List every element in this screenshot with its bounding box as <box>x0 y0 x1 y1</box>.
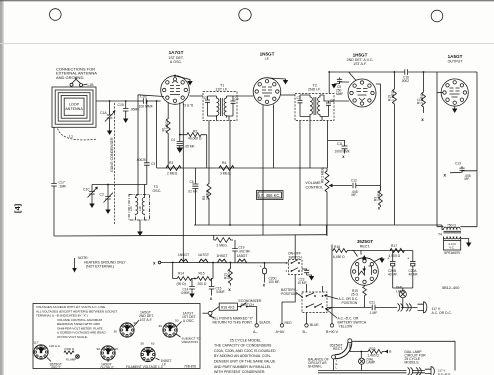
capacitor C11 1000MMF <box>328 140 345 146</box>
svg-text:RECT.: RECT. <box>360 245 371 249</box>
svg-text:RED: RED <box>285 321 293 325</box>
svg-text:50: 50 <box>175 319 179 323</box>
node shunt mid <box>194 278 196 280</box>
svg-text:OUTPUT: OUTPUT <box>100 366 114 370</box>
switch blade economizer <box>237 303 256 324</box>
wire V2 screen drop <box>273 105 275 169</box>
rectifier feed line with R16 <box>332 245 358 257</box>
wire left long drop from loop <box>53 127 55 183</box>
svg-text:*3 & *6: *3 & *6 <box>183 104 193 108</box>
svg-text:.04MF.: .04MF. <box>181 291 191 295</box>
svg-text:2 MEG.: 2 MEG. <box>217 244 228 248</box>
svg-text:117: 117 <box>34 341 39 345</box>
socket S4 1A7GT upper <box>163 323 177 337</box>
svg-text:120 A.C.: 120 A.C. <box>49 344 61 348</box>
inset cord slack <box>408 368 422 375</box>
svg-text:L2B: L2B <box>138 206 142 211</box>
resistor R15 200 ohm <box>195 277 213 281</box>
svg-text:x: x <box>210 296 213 301</box>
T1 secondary coil <box>224 96 226 118</box>
svg-text:900 Ω: 900 Ω <box>227 270 231 279</box>
wire V2 top ground lead <box>269 78 286 80</box>
terminal A plus 6V <box>281 302 283 324</box>
on-off switch dashed box <box>289 260 303 275</box>
svg-text:1ST I.F.: 1ST I.F. <box>216 88 229 92</box>
tube V3 1H5GT envelope <box>348 79 376 107</box>
svg-text:L: L <box>336 366 338 370</box>
svg-text:1A5GT: 1A5GT <box>448 54 463 59</box>
electrolytic C20A <box>412 251 414 262</box>
return arrow under C1A <box>107 131 112 136</box>
svg-text:C6: C6 <box>190 180 194 184</box>
battery switch dashed box <box>302 292 327 313</box>
wire V3 diode plate down <box>376 84 381 190</box>
svg-text:1A7GT: 1A7GT <box>198 253 210 257</box>
T3 coil B <box>142 197 144 216</box>
svg-text:R23: R23 <box>370 347 376 351</box>
wire V3 plate to rail <box>349 72 356 81</box>
wire main signal line <box>96 100 161 102</box>
svg-text:1000 MMF.: 1000 MMF. <box>335 150 351 154</box>
wire T2 screen feed x329.2 <box>328 72 330 94</box>
svg-text:1H5GT: 1H5GT <box>353 53 368 58</box>
wire V1 top ground lead <box>177 76 191 81</box>
T4 primary coil <box>444 227 461 229</box>
wire T2 primary bplus drop <box>299 121 301 226</box>
svg-text:R3: R3 <box>169 161 173 165</box>
svg-text:C20A, C20B, AND C20C IS DOUBLE: C20A, C20B, AND C20C IS DOUBLED <box>214 349 276 353</box>
svg-text:[4]: [4] <box>13 203 22 213</box>
wire switch to A plus <box>282 275 295 303</box>
socket S4 label <box>177 322 182 327</box>
svg-text:POSITION: POSITION <box>281 292 297 296</box>
resistor R11 vertical 2 MEG <box>422 72 426 113</box>
svg-text:L2A: L2A <box>129 206 133 211</box>
resistor R12 2 MEG near bus <box>214 235 233 242</box>
voltage chart text <box>36 305 118 339</box>
potentiometer R8 <box>325 168 329 236</box>
wire battery switch top feeds <box>307 284 333 313</box>
svg-text:CONTROL: CONTROL <box>306 185 324 189</box>
economizer terminal <box>208 311 212 315</box>
resistor R3 2 MEG in AVC bus <box>166 166 181 171</box>
svg-text:.00025: .00025 <box>136 158 146 162</box>
svg-text:1A5GT: 1A5GT <box>236 254 248 258</box>
svg-text:L1B: L1B <box>88 83 95 87</box>
node filament joints <box>172 262 174 264</box>
svg-text:(90 Ω): (90 Ω) <box>177 282 186 286</box>
wire T2 secondary return <box>309 121 311 169</box>
antenna terminal B <box>80 84 83 87</box>
AC line to plug <box>375 306 397 308</box>
capacitor C19 .002MF <box>234 240 236 249</box>
wire T2 drop to switch <box>294 235 296 260</box>
ground arrow V2 top <box>283 80 288 85</box>
bus riser at volume control <box>326 225 328 235</box>
terminal B minus <box>306 313 308 324</box>
svg-text:C15: C15 <box>118 103 124 107</box>
svg-text:C7: C7 <box>297 96 301 100</box>
node junction C15 <box>125 100 127 102</box>
dashed gang condenser line <box>114 103 116 224</box>
dial lamp <box>402 288 404 291</box>
svg-text:MF.: MF. <box>465 177 470 181</box>
wire wiper to R9 <box>356 185 381 187</box>
svg-text:40 MF.: 40 MF. <box>388 272 398 276</box>
svg-text:A+6V.: A+6V. <box>276 330 286 334</box>
svg-text:A.C. OR D.C.: A.C. OR D.C. <box>432 311 452 315</box>
inset resistor R23 <box>361 350 388 354</box>
svg-text:I.F.: I.F. <box>162 363 167 367</box>
svg-text:ANTENNA: ANTENNA <box>65 107 83 111</box>
svg-text:T4: T4 <box>438 233 442 237</box>
svg-text:& OSC.: & OSC. <box>183 319 195 323</box>
economizer resistor box R18 <box>212 307 220 312</box>
svg-text:C1C: C1C <box>83 188 90 192</box>
svg-text:100 MMF.: 100 MMF. <box>139 105 154 109</box>
capacitor C4 .05MF electrolytic <box>177 142 183 146</box>
svg-text:R16: R16 <box>334 245 340 249</box>
svg-text:TERMINAL & –B (INDICATED BY "X: TERMINAL & –B (INDICATED BY "X") <box>36 314 88 318</box>
svg-text:90: 90 <box>97 347 101 351</box>
wire V5 top right ground <box>374 258 383 263</box>
svg-text:.04MF.: .04MF. <box>216 290 226 294</box>
speaker ground <box>461 239 469 243</box>
variable capacitor C1C <box>91 185 93 192</box>
svg-text:3: 3 <box>285 269 287 273</box>
node R2 left <box>179 134 181 136</box>
svg-text:& OSC.: & OSC. <box>170 60 182 64</box>
socket S3 1H5GT upper <box>120 323 134 337</box>
node V1 top cap <box>174 75 176 77</box>
socket S5 1N5GT <box>141 347 155 361</box>
tube V1 internal grids <box>170 81 180 95</box>
svg-text:BY ADDING AN ADDITIONAL CO: BY ADDING AN ADDITIONAL CON- <box>214 354 272 358</box>
T3 coil A <box>136 197 138 216</box>
svg-text:C4: C4 <box>171 138 175 142</box>
tube V4 1A5GT envelope <box>441 79 468 106</box>
svg-text:x: x <box>263 283 266 288</box>
T4 core <box>444 231 462 233</box>
socket S1 35Z5GT <box>34 345 48 359</box>
wire terminal leads <box>72 77 87 85</box>
wire T3 bottom return <box>136 217 145 232</box>
capacitor C15 .05MF <box>125 101 127 109</box>
svg-text:x: x <box>444 173 447 178</box>
svg-text:B+90 V.: B+90 V. <box>326 330 339 334</box>
svg-text:90: 90 <box>159 324 163 328</box>
svg-text:+: + <box>260 264 262 268</box>
dashed arc L1 <box>58 129 97 140</box>
svg-text:2 MEG.: 2 MEG. <box>165 120 169 131</box>
svg-text:OUTPUT: OUTPUT <box>448 60 464 64</box>
voltage chart box <box>33 304 200 369</box>
B minus bus line <box>54 235 327 236</box>
T1 capacitor C6 <box>232 96 234 101</box>
socket S2 label <box>107 361 109 363</box>
mounting hole middle <box>239 9 251 21</box>
node rail junctions <box>394 71 396 73</box>
resistor R9 vertical <box>378 186 382 208</box>
svg-text:+: + <box>407 256 410 261</box>
svg-text:1H5GT: 1H5GT <box>216 254 228 258</box>
svg-text:C1A: C1A <box>100 111 107 115</box>
mounting hole right <box>431 10 443 22</box>
svg-text:GANG CONDENSER: GANG CONDENSER <box>110 137 114 172</box>
rectifier left leg <box>331 251 333 308</box>
capacitor C6 line x195.4 <box>194 168 196 184</box>
svg-text:6,450 Ω: 6,450 Ω <box>333 255 345 259</box>
potentiometer wiper arrow <box>333 185 353 187</box>
socket S5 label <box>156 358 160 360</box>
node osc line joints <box>107 184 109 186</box>
speaker voice coil box <box>444 237 461 241</box>
wire long drop x183.3 <box>182 103 184 263</box>
wire screen drop x179.8 <box>179 103 181 142</box>
svg-text:(NOT EXTERNAL): (NOT EXTERNAL) <box>86 264 114 268</box>
trimmer capacitor C2 <box>107 185 109 197</box>
svg-text:.1 MF.: .1 MF. <box>369 311 378 315</box>
resistor R4 3 MEG in AVC bus <box>219 166 234 171</box>
top rail B+ <box>329 71 477 73</box>
inset arc to resistor wire <box>350 344 361 352</box>
ground arrow under V4 <box>454 106 456 108</box>
page left edge shadow <box>0 0 3 375</box>
inset heater tube arc <box>335 342 350 356</box>
switch contacts <box>291 262 293 264</box>
svg-text:7X8-876: 7X8-876 <box>184 364 196 368</box>
node junction at loop to C1A <box>109 100 111 102</box>
svg-text:R15: R15 <box>199 272 205 276</box>
svg-text:.1MF.: .1MF. <box>59 184 67 188</box>
resistor R2 40000 ohm <box>180 133 207 137</box>
capacitor C9 at V3 grid <box>340 81 350 83</box>
AVC bus line <box>157 167 327 169</box>
svg-text:LOOP: LOOP <box>69 102 80 106</box>
T2 secondary coil <box>318 95 320 117</box>
svg-text:I.F. 456 KC.: I.F. 456 KC. <box>259 193 280 198</box>
T2 primary coil <box>310 95 312 117</box>
svg-text:R2: R2 <box>193 130 197 134</box>
T4 secondary coil <box>444 237 461 239</box>
electrolytic C20B <box>392 251 394 262</box>
svg-text:1N5GT: 1N5GT <box>260 52 275 57</box>
svg-text:25 Ω: 25 Ω <box>351 293 359 297</box>
svg-text:.01 MF.: .01 MF. <box>188 189 199 193</box>
wire T2 to volume control <box>327 121 329 169</box>
transformer T1 dashed can <box>203 92 237 121</box>
socket S1 label <box>47 358 51 362</box>
svg-text:25 CYCLE MODEL: 25 CYCLE MODEL <box>230 339 262 343</box>
wire V4 grid from R10 <box>437 92 443 94</box>
shunt branch down <box>173 263 178 279</box>
tube V5 35Z5GT envelope <box>351 258 379 286</box>
resistor R10 vertical 1 MEG <box>392 72 396 225</box>
svg-text:C12: C12 <box>351 179 357 183</box>
svg-text:FILAMENT VOLTAGE 1.3: FILAMENT VOLTAGE 1.3 <box>126 365 163 369</box>
svg-text:BLACK: BLACK <box>260 321 272 325</box>
svg-text:C2: C2 <box>100 193 104 197</box>
wire plate V2 to T2 <box>281 94 295 96</box>
svg-text:C13: C13 <box>455 162 461 166</box>
transformer T2 dashed can <box>295 94 334 121</box>
mounting hole left <box>50 9 62 21</box>
faint scan fold line <box>0 43 494 45</box>
terminal B plus 90 <box>331 313 333 324</box>
svg-text:750 Ω: 750 Ω <box>447 223 456 227</box>
capacitor C13 at output grid <box>462 170 477 172</box>
svg-text:1A7GT: 1A7GT <box>169 50 184 55</box>
pilot resistor between <box>64 351 74 354</box>
svg-text:C3: C3 <box>151 162 155 166</box>
T1 core lines <box>221 98 223 116</box>
svg-text:1ST A.F.: 1ST A.F. <box>140 318 153 322</box>
wire V5 top feed arrow <box>360 251 362 255</box>
resistor R14 90 ohm <box>177 277 195 281</box>
wire T2 secondary to V3 grid <box>329 100 350 102</box>
svg-text:SPEAKER: SPEAKER <box>444 251 461 255</box>
svg-text:R: R <box>389 350 392 354</box>
socket S3 label <box>134 320 139 326</box>
svg-text:I.F.: I.F. <box>265 57 270 61</box>
svg-text:x: x <box>421 117 424 122</box>
subject to variation note <box>176 334 181 337</box>
svg-text:3 MEG.: 3 MEG. <box>220 172 231 176</box>
page top edge line <box>0 0 494 2</box>
shunt branch up <box>212 263 214 279</box>
svg-text:3 MEG.: 3 MEG. <box>377 190 381 201</box>
svg-text:4,500 Ω: 4,500 Ω <box>389 254 401 258</box>
svg-text:SHOWN,: SHOWN, <box>308 365 322 369</box>
svg-text:1N5GT: 1N5GT <box>178 253 190 257</box>
T2 capacitor C7 <box>299 95 301 101</box>
svg-text:RECT.: RECT. <box>333 347 343 351</box>
svg-text:90: 90 <box>115 347 119 351</box>
svg-text:A–: A– <box>253 330 257 334</box>
svg-text:2ND I.F.: 2ND I.F. <box>308 88 321 92</box>
wire osc feed x138 <box>136 95 139 197</box>
capacitor C16 series in rail <box>404 71 408 74</box>
AC line <box>327 306 372 308</box>
svg-text:.002 MF.: .002 MF. <box>239 249 251 253</box>
wire R2 right drop <box>206 135 208 168</box>
electrolytic C20C <box>264 262 266 264</box>
ground arrow V1 top <box>187 81 192 86</box>
svg-text:WITH PRESENT CONDENSER.: WITH PRESENT CONDENSER. <box>214 370 265 374</box>
wire osc feed x146.8 with capacitor C3 <box>145 101 147 197</box>
resistor R13 900 ohm drop <box>228 263 232 286</box>
cord slack symbols <box>398 304 403 312</box>
svg-text:B–: B– <box>303 330 307 334</box>
wire T4 connections <box>442 225 444 230</box>
svg-text:C11: C11 <box>337 142 343 146</box>
wire grid drop x156.6 <box>156 101 158 168</box>
svg-text:DENSER UNIT OF THE SAME VALUE: DENSER UNIT OF THE SAME VALUE <box>214 360 276 364</box>
rectifier top line <box>352 250 413 252</box>
T2 core lines <box>314 97 316 115</box>
svg-text:35Z5GT: 35Z5GT <box>357 239 373 244</box>
svg-text:50: 50 <box>141 342 145 346</box>
note arrow <box>74 258 76 268</box>
svg-text:OSC.: OSC. <box>153 189 162 193</box>
svg-text:MODELS.: MODELS. <box>405 361 420 365</box>
ground arrow under C9 <box>331 84 336 89</box>
svg-text:1ST A.F.: 1ST A.F. <box>353 62 367 66</box>
inset dial lamp <box>359 358 365 364</box>
svg-text:AND GROUND.: AND GROUND. <box>56 75 84 80</box>
wire V2 cathode drop <box>262 105 264 235</box>
antenna terminal A <box>70 83 73 86</box>
resistor R1 vertical 2 MEG <box>166 103 170 169</box>
svg-text:L1: L1 <box>69 135 73 139</box>
tube V2 1N5GT envelope <box>253 78 281 106</box>
svg-text:3 MEG.: 3 MEG. <box>206 189 210 200</box>
tube V5 internal heater <box>359 266 372 275</box>
svg-text:x: x <box>153 261 156 266</box>
svg-text:100 MF.: 100 MF. <box>269 280 280 284</box>
tube V4 internal grids <box>450 88 460 97</box>
svg-text:P.LAMP: P.LAMP <box>66 357 76 361</box>
cap bottoms tie <box>393 287 413 289</box>
tube V2 internal grids <box>262 87 272 96</box>
svg-text:x: x <box>342 154 345 159</box>
variable capacitor C1A tuning gang <box>109 101 111 115</box>
svg-text:VARIATION: VARIATION <box>182 340 198 344</box>
svg-text:RETURN TO THIS POINT.: RETURN TO THIS POINT. <box>213 320 253 324</box>
capacitor C21 series in AC line <box>372 306 376 309</box>
resistor R5 vertical 3 MEG <box>207 121 211 226</box>
svg-text:10 MF.: 10 MF. <box>298 281 308 285</box>
inset plug <box>425 369 431 373</box>
wire T1 to V2 grid <box>233 95 253 97</box>
svg-text:2 MEG.: 2 MEG. <box>167 172 178 176</box>
svg-text:40 MF.: 40 MF. <box>409 272 419 276</box>
capacitor C14 with ground <box>191 279 193 287</box>
loop antenna L1 <box>52 87 96 127</box>
inset top wire <box>352 341 456 370</box>
svg-text:BLUE: BLUE <box>310 323 319 327</box>
heater tap resistor R19 <box>363 285 367 307</box>
capacitor C17 .1MF in left drop <box>51 184 57 186</box>
svg-text:LAMP: LAMP <box>367 361 376 365</box>
svg-text:AND PART NUMBER IN PARALLE: AND PART NUMBER IN PARALLEL <box>214 365 271 369</box>
svg-text:30: 30 <box>114 330 118 334</box>
inset R arrow <box>387 350 389 353</box>
output stage enclosure box <box>437 72 477 227</box>
loop terminal stubs <box>72 85 82 88</box>
T1 primary coil <box>217 96 219 118</box>
svg-text:RECT.: RECT. <box>52 366 62 370</box>
inset bottom cord <box>318 371 407 373</box>
svg-text:R18 49.5: R18 49.5 <box>221 306 235 310</box>
svg-text:1 MEG.: 1 MEG. <box>391 90 395 101</box>
capacitor C15A with B minus <box>211 279 213 287</box>
T1 internal ties <box>208 96 234 121</box>
battery switch contacts <box>306 295 308 297</box>
wire grid return segment <box>138 95 164 97</box>
oscillator grid line <box>92 184 147 186</box>
T2 capacitor C8 <box>328 101 330 103</box>
svg-text:V.C.: V.C. <box>449 246 455 250</box>
T2 internal ties <box>300 95 329 121</box>
svg-text:.0002: .0002 <box>401 79 409 83</box>
filament bus <box>161 262 289 264</box>
svg-text:200 Ω: 200 Ω <box>198 282 207 286</box>
svg-text:C21: C21 <box>369 301 375 305</box>
svg-text:R17: R17 <box>391 244 397 248</box>
svg-text:R8 2 MEG.: R8 2 MEG. <box>321 167 325 183</box>
tube V3 internal grids <box>357 89 368 101</box>
